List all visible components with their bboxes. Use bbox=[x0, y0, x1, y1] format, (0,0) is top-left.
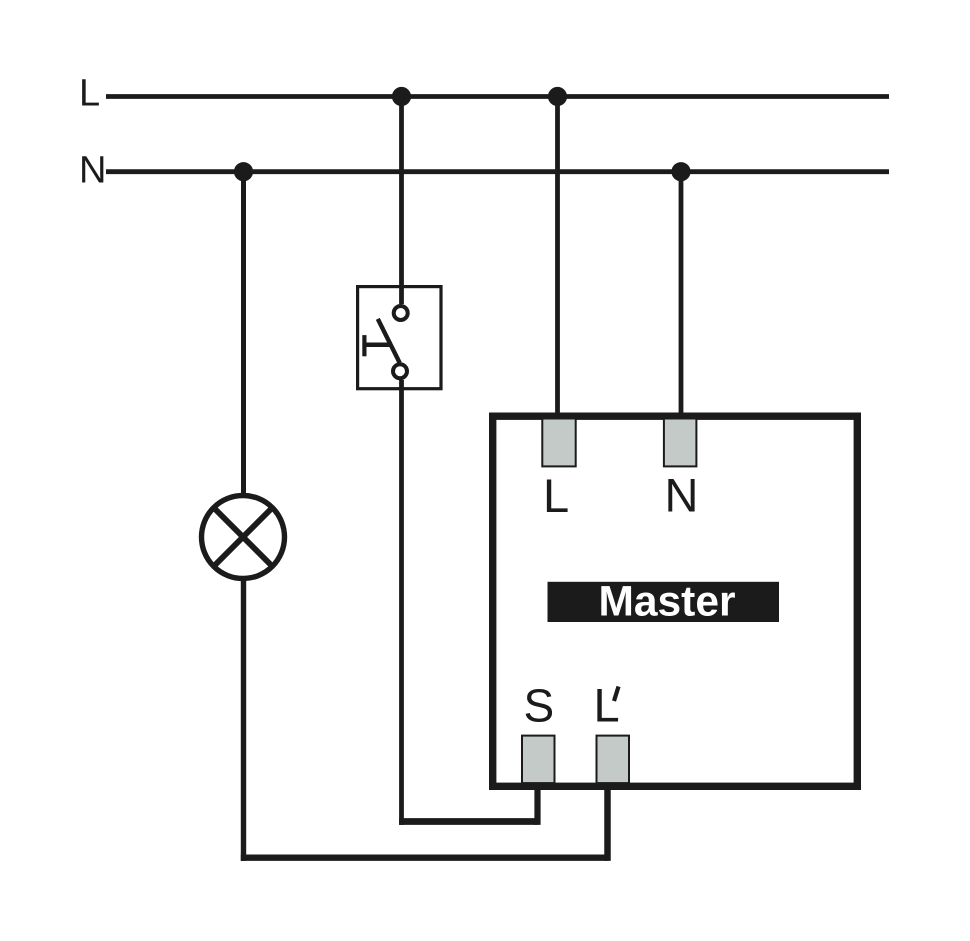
svg-text:S: S bbox=[524, 680, 555, 732]
svg-text:Master: Master bbox=[598, 579, 735, 626]
svg-text:N: N bbox=[79, 150, 106, 192]
svg-text:N: N bbox=[665, 469, 699, 522]
svg-text:L: L bbox=[543, 469, 569, 522]
svg-text:L: L bbox=[79, 73, 100, 115]
svg-text:L: L bbox=[594, 679, 620, 732]
